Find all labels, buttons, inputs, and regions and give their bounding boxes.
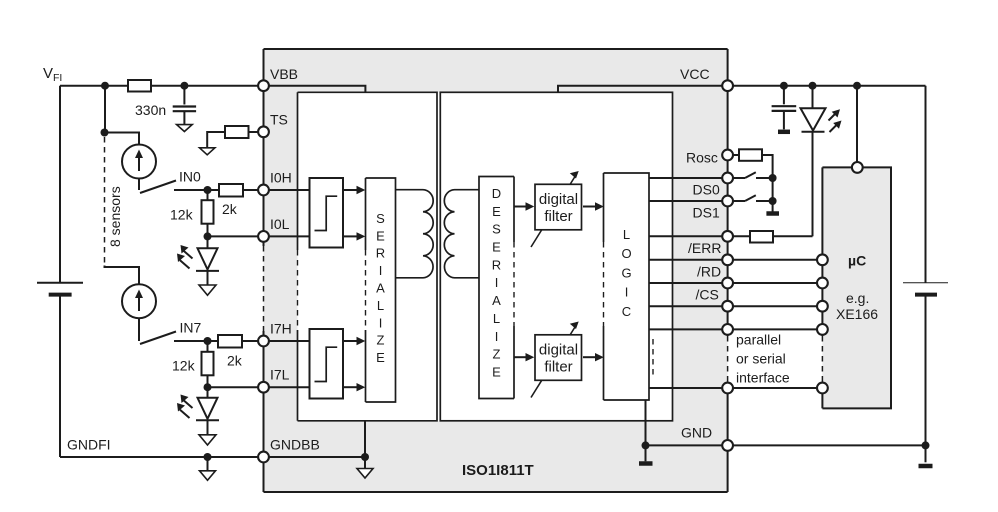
svg-text:or serial: or serial	[736, 351, 786, 367]
chip right edge dashed	[727, 336, 729, 382]
wire P1 internal	[649, 305, 728, 307]
svg-text:2k: 2k	[227, 353, 243, 369]
svg-text:E: E	[376, 228, 385, 243]
LED D1	[180, 248, 219, 284]
wire P2 external	[728, 328, 823, 330]
svg-text:XE166: XE166	[836, 306, 878, 322]
pin uC /RD	[817, 254, 828, 265]
ground (field) GNDFI	[200, 471, 216, 481]
microcontroller uC left edge dashed	[821, 336, 823, 382]
svg-text:VBB: VBB	[270, 66, 298, 82]
capacitor C2	[772, 106, 797, 111]
svg-text:digital: digital	[539, 191, 578, 208]
node GNDFI ground junction	[204, 453, 212, 461]
wire current source I2 to switch	[138, 319, 140, 342]
pin DS1	[722, 196, 733, 207]
current source I2 (sensor 7)	[122, 284, 156, 318]
svg-text:DS1: DS1	[693, 205, 720, 221]
svg-text:GNDFI: GNDFI	[67, 437, 111, 453]
chip ISO1I811T body	[264, 49, 728, 492]
node GND battery junction	[922, 441, 930, 449]
switch DS0 blade	[745, 172, 756, 178]
resistor R5 12k	[202, 352, 214, 376]
node GND internal junction	[642, 441, 650, 449]
node I7L junction	[204, 383, 212, 391]
wire DESERIALIZE to filter ch7	[514, 356, 528, 358]
pin P1	[722, 301, 733, 312]
node VCC LED junction	[809, 82, 817, 90]
transformer T1 primary winding	[396, 190, 434, 278]
wire schmitt ch0 out L	[343, 235, 359, 237]
wire GNDFI stub	[207, 457, 209, 471]
battery B1 (field supply)	[37, 283, 83, 295]
svg-text:GND: GND	[681, 425, 712, 441]
svg-text:E: E	[376, 350, 385, 365]
node IN7 junction	[204, 337, 212, 345]
svg-text:TS: TS	[270, 112, 288, 128]
ground (field) TS	[200, 148, 215, 155]
wire VCC internal	[558, 86, 728, 93]
svg-text:filter: filter	[544, 359, 572, 376]
ground (field) under C1	[177, 125, 193, 132]
node C1 junction	[180, 82, 188, 90]
pin DS0	[722, 173, 733, 184]
svg-text:/ERR: /ERR	[688, 240, 721, 256]
wire 2k R4 to I7H	[241, 340, 258, 342]
wire RD internal	[649, 259, 728, 261]
wire ERR internal	[649, 235, 728, 237]
wire DS0 contact to rail	[756, 177, 773, 179]
wire I0L node to LED D1	[207, 236, 209, 248]
pin Rosc	[722, 150, 733, 161]
pin P3	[722, 383, 733, 394]
chip border	[264, 49, 728, 492]
wire cap C2 stub bottom	[783, 111, 785, 129]
wire ERR resistor right	[773, 235, 813, 237]
wire I0L node to pin	[208, 235, 259, 237]
wire IN0 node	[174, 189, 219, 191]
svg-text:Z: Z	[377, 333, 385, 348]
dashed replication between P2/P3 internal	[652, 339, 654, 378]
svg-text:S: S	[492, 222, 501, 237]
dashed sensors replication line	[104, 137, 106, 265]
wire ERR pin to resistor	[728, 235, 750, 237]
svg-text:C: C	[622, 304, 631, 319]
digital filter ch7	[531, 322, 582, 398]
chip left edge dashed (channels 1..6)	[263, 246, 265, 331]
svg-text:I: I	[379, 315, 383, 330]
wire GNDFI rail	[60, 456, 258, 458]
wire LED D3 cathode down	[812, 132, 814, 237]
wire cap C2 stub top	[783, 86, 785, 105]
svg-text:parallel: parallel	[736, 332, 781, 348]
wire TS resistor to ground	[207, 132, 225, 148]
pin GND	[722, 440, 733, 451]
wire uC supply	[856, 86, 858, 163]
wire GND internal vertical	[645, 400, 647, 461]
node VCC uC junction	[853, 82, 861, 90]
svg-text:2k: 2k	[222, 201, 238, 217]
svg-text:G: G	[621, 265, 631, 280]
svg-text:L: L	[377, 298, 384, 313]
pin TS	[258, 126, 269, 137]
svg-text:IN0: IN0	[179, 169, 201, 185]
svg-text:L: L	[493, 311, 500, 326]
wire I0L internal	[264, 235, 310, 237]
svg-text:VFI: VFI	[43, 65, 62, 84]
svg-text:I: I	[495, 275, 499, 290]
digital filter ch0	[531, 171, 582, 247]
ground (field) GNDBB internal	[357, 469, 373, 479]
node IN0 junction	[204, 186, 212, 194]
wire GND internal horizontal	[646, 444, 728, 446]
wire filter ch7 to LOGIC	[583, 356, 598, 358]
ground (logic) battery bar	[919, 464, 933, 469]
svg-text:330n: 330n	[135, 102, 166, 118]
wire P3 internal	[649, 387, 728, 389]
capacitor C1 330n	[173, 86, 196, 125]
inner block box2 (logic side)	[440, 92, 672, 421]
battery B2 (logic supply)	[903, 283, 948, 295]
svg-text:I7H: I7H	[270, 321, 292, 337]
svg-text:VCC: VCC	[680, 66, 710, 82]
wire DS1 stub	[728, 200, 745, 202]
wire to current source I1	[105, 133, 139, 145]
wire P1 external	[728, 305, 823, 307]
wire sensor tap down	[104, 86, 106, 133]
ground (field) under LED D1	[199, 285, 216, 295]
svg-text:A: A	[376, 281, 385, 296]
pin GNDBB	[258, 452, 269, 463]
wire I7L node to pin	[208, 386, 259, 388]
internal output wires LOGIC to pins	[646, 178, 728, 461]
pin uC P2	[817, 324, 828, 335]
svg-text:8 sensors: 8 sensors	[107, 186, 123, 247]
node VCC cap junction	[780, 82, 788, 90]
svg-text:12k: 12k	[170, 207, 194, 223]
pin uC P1	[817, 301, 828, 312]
pin /ERR	[722, 231, 733, 242]
switch SW7 blade	[140, 332, 176, 345]
ground (logic) GND internal bar	[639, 461, 653, 466]
wire P2 internal	[649, 328, 728, 330]
node DS0 rail junction	[769, 174, 777, 182]
pin VCC	[722, 80, 733, 91]
wire DS0 stub	[728, 177, 745, 179]
inner block box1 (input side)	[298, 92, 673, 421]
wire VBB internal	[264, 86, 366, 93]
pin P2	[722, 324, 733, 335]
pin uC /CS	[817, 278, 828, 289]
wire I7L internal	[264, 386, 310, 388]
svg-text:µC: µC	[848, 253, 866, 269]
resistor R6 (TS)	[225, 126, 249, 138]
svg-text:/RD: /RD	[697, 263, 721, 279]
wire GND battery stub	[925, 445, 927, 462]
current source I1 (sensor 0)	[122, 145, 156, 179]
comparator (schmitt) channel 0	[310, 178, 344, 248]
wire DS1 contact to rail	[756, 200, 773, 202]
wire GNDBB up to block	[364, 421, 366, 457]
svg-text:E: E	[492, 204, 501, 219]
ground (field) under LED D2	[199, 435, 216, 445]
svg-text:S: S	[376, 211, 385, 226]
resistor R4 2k	[218, 335, 242, 348]
pin I7H	[258, 336, 269, 347]
ground (logic) DS rail bar	[766, 211, 779, 216]
pin I7L	[258, 382, 269, 393]
pin /CS	[722, 278, 733, 289]
node sensors tap	[101, 129, 109, 137]
svg-text:ISO1I811T: ISO1I811T	[462, 462, 534, 479]
wire battery B2 to GND rail	[925, 296, 927, 445]
wire schmitt ch7 out L	[343, 386, 359, 388]
pin I0L	[258, 231, 269, 242]
wire Rosc pin stub	[728, 154, 739, 156]
block LOGIC	[604, 173, 650, 400]
node DS1 rail junction	[769, 197, 777, 205]
svg-text:Z: Z	[493, 347, 501, 362]
svg-text:I: I	[379, 263, 383, 278]
svg-text:O: O	[621, 246, 631, 261]
svg-text:IN7: IN7	[180, 320, 202, 336]
wire CS internal	[649, 282, 728, 284]
wire IN0 junction to 12k	[207, 190, 209, 200]
pin /RD	[722, 254, 733, 265]
wire VFI rail	[60, 85, 258, 87]
wire GND external	[728, 444, 926, 446]
svg-text:DS0: DS0	[693, 182, 720, 198]
svg-text:R: R	[376, 246, 385, 261]
ground (logic) under C2	[778, 130, 790, 135]
node GNDBB junction	[361, 453, 369, 461]
wire /RD external	[728, 259, 823, 261]
svg-text:interface: interface	[736, 370, 790, 386]
comparator (schmitt) channel 7	[310, 329, 344, 399]
wire VCC rail	[728, 85, 926, 87]
svg-text:I0L: I0L	[270, 216, 290, 232]
wire GNDBB stub down	[364, 457, 366, 468]
svg-text:I: I	[625, 285, 629, 300]
node I0L junction	[204, 232, 212, 240]
LED D2	[180, 398, 219, 435]
wire 12k to I0L node	[207, 224, 209, 237]
wire I0H internal	[264, 189, 310, 191]
node VFI junction 1	[101, 82, 109, 90]
wire Rosc resistor to rail	[762, 155, 773, 212]
svg-text:digital: digital	[539, 342, 578, 359]
pin VBB	[258, 80, 269, 91]
svg-text:GNDBB: GNDBB	[270, 437, 320, 453]
wire battery to GNDFI rail	[59, 296, 61, 457]
svg-text:E: E	[492, 240, 501, 255]
microcontroller U2 body	[822, 167, 891, 408]
svg-text:I: I	[495, 329, 499, 344]
transformer T1 secondary winding	[444, 190, 479, 278]
wire 12k R5 to I7L node	[207, 375, 209, 387]
wire DS1 internal	[649, 200, 728, 202]
wire P3 external	[728, 387, 823, 389]
wire DESERIALIZE to filter ch0	[514, 206, 528, 208]
wire schmitt ch0 out H	[343, 189, 359, 191]
block DESERIALIZE	[479, 177, 514, 399]
pin uC P3	[817, 383, 828, 394]
switch SW0 blade	[140, 181, 176, 194]
wire I7H internal	[264, 340, 310, 342]
svg-text:A: A	[492, 293, 501, 308]
svg-text:I0H: I0H	[270, 170, 292, 186]
resistor R7 (Rosc)	[739, 149, 762, 161]
svg-text:L: L	[623, 227, 630, 242]
svg-text:Rosc: Rosc	[686, 149, 718, 165]
resistor R3 12k	[202, 200, 214, 224]
svg-text:R: R	[492, 257, 501, 272]
wire VFI down to battery	[59, 86, 61, 283]
wire schmitt ch7 out H	[343, 340, 359, 342]
svg-text:12k: 12k	[172, 358, 196, 374]
wire DS0 internal	[649, 177, 728, 179]
wire TS pin to resistor	[249, 131, 264, 133]
wire IN7 node	[174, 340, 218, 342]
svg-text:E: E	[492, 365, 501, 380]
svg-text:filter: filter	[544, 208, 572, 225]
wire 2k R2 to I0H	[243, 189, 258, 191]
block SERIALIZE	[366, 178, 396, 402]
resistor R8 (ERR LED)	[750, 231, 773, 243]
wire I7L node to LED D2	[207, 387, 209, 398]
svg-text:e.g.: e.g.	[846, 290, 869, 306]
wire /CS external	[728, 282, 823, 284]
resistor R2 2k	[219, 184, 243, 197]
pin I0H	[258, 185, 269, 196]
switch DS1 blade	[745, 195, 756, 201]
LED D3 (error indicator)	[801, 108, 838, 132]
svg-text:I7L: I7L	[270, 367, 290, 383]
wire LED D3 anode	[812, 86, 814, 109]
wire GNDBB internal	[264, 456, 366, 458]
wire IN7 junction to 12k	[207, 341, 209, 352]
pin uC VDD	[852, 162, 863, 173]
wire filter ch0 to LOGIC	[583, 206, 598, 208]
svg-text:D: D	[492, 186, 501, 201]
wire sensors bottom corner to source I2	[105, 266, 140, 285]
wire VCC rail down to battery	[925, 86, 927, 283]
svg-text:/CS: /CS	[696, 287, 719, 303]
resistor R1 (VBB feed)	[128, 80, 151, 92]
wire current source I1 to switch	[138, 179, 140, 191]
